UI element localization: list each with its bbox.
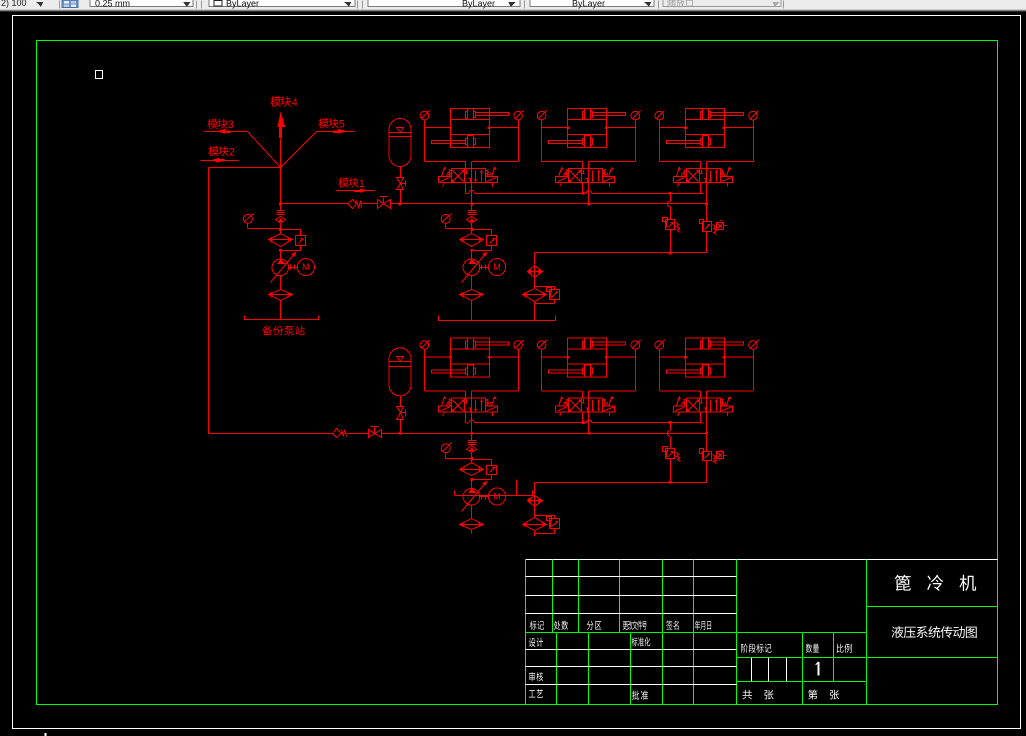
svg-text:ByLayer: ByLayer xyxy=(462,0,495,8)
wire return bus xyxy=(535,482,707,484)
wire xyxy=(706,461,708,483)
wire T chain with hops xyxy=(469,413,701,425)
cylinder group 2 xyxy=(537,109,640,194)
row texts xyxy=(529,637,650,700)
return branch 1 xyxy=(523,253,560,304)
green row below header xyxy=(526,632,867,634)
svg-text:M: M xyxy=(493,492,501,502)
tank xyxy=(245,316,319,320)
motor M xyxy=(488,488,505,505)
pump (variable displacement) xyxy=(462,480,487,512)
pressure gauge xyxy=(441,214,451,224)
lower table white rows xyxy=(526,650,737,685)
coupling xyxy=(289,265,298,270)
wire pump column upper xyxy=(471,434,473,464)
wire T chain with hops xyxy=(469,183,701,195)
right boxes green xyxy=(867,560,998,705)
wire junction down to pump bus xyxy=(279,168,282,206)
sub table (green) xyxy=(737,633,867,705)
wire left riser (to lower bus) xyxy=(208,168,210,434)
wire system relief column xyxy=(706,434,708,452)
coupling xyxy=(480,495,489,500)
sub table texts xyxy=(741,644,852,700)
wire return stub lower xyxy=(534,531,536,537)
label 备份泵站 xyxy=(262,326,304,336)
wire return to tank xyxy=(534,302,536,321)
wire lower pressure bus xyxy=(209,432,709,435)
check valve CV2 on lower bus xyxy=(333,429,347,438)
accumulator AC2 xyxy=(389,348,412,396)
svg-text:2) 100: 2) 100 xyxy=(1,0,27,8)
svg-text:5: 5 xyxy=(339,119,345,131)
relief valve bypass xyxy=(470,228,496,251)
wire suction stub lower xyxy=(471,530,473,534)
label 模块1 with leader xyxy=(336,178,375,193)
wire gauge to column xyxy=(446,224,474,231)
cylinder group 6 xyxy=(655,338,758,423)
svg-text:3: 3 xyxy=(228,119,234,131)
tank xyxy=(439,316,556,321)
wire return bus xyxy=(535,252,707,254)
wire xyxy=(534,278,536,289)
title block verticals upper table (green) xyxy=(526,560,737,633)
wire P drops valves xyxy=(472,183,707,204)
check valve (pump outlet) xyxy=(467,211,477,224)
shutoff valve under AC2 xyxy=(397,396,406,434)
return filter xyxy=(523,518,547,531)
pump (variable displacement) xyxy=(271,251,296,283)
motor M xyxy=(297,259,314,276)
svg-text:1: 1 xyxy=(359,178,365,190)
drain symbol xyxy=(717,451,727,461)
svg-text:ByLayer: ByLayer xyxy=(226,0,259,9)
wire top pressure bus xyxy=(281,203,709,206)
relief valve (return side) xyxy=(663,447,681,462)
pressure gauge xyxy=(441,443,451,453)
svg-text:ByLayer: ByLayer xyxy=(572,0,605,8)
wire junction to left riser xyxy=(209,167,281,169)
label 模块3 with leader xyxy=(204,119,281,168)
sub table small white cells xyxy=(752,658,787,682)
return filter xyxy=(523,289,547,302)
drawing name 液压系统传动图 xyxy=(892,626,977,638)
wire xyxy=(534,507,536,518)
return filter relief bypass xyxy=(535,287,560,304)
cylinder group 3 xyxy=(655,109,758,194)
return branch 2 xyxy=(523,483,560,534)
wire relief drop with bus hop xyxy=(667,194,670,220)
pressure gauge xyxy=(243,214,253,224)
wire xyxy=(669,459,672,484)
wire system relief column xyxy=(706,204,708,222)
pilot operated check valve xyxy=(528,266,543,278)
wire xyxy=(669,230,672,255)
relief valve (return side) xyxy=(663,218,681,233)
wire relief drop with bus hop xyxy=(667,423,670,449)
backup pump station xyxy=(243,204,318,336)
motor M xyxy=(488,259,505,276)
svg-text:M: M xyxy=(302,262,310,272)
relief valve bypass xyxy=(470,458,496,481)
project name 篦冷机 xyxy=(895,575,976,591)
cylinder group 1 xyxy=(420,109,523,194)
relief valve bypass xyxy=(279,228,305,251)
wire gauge to column xyxy=(446,453,474,460)
suction filter xyxy=(460,276,484,301)
check valve (pump outlet) xyxy=(467,441,477,453)
coupling xyxy=(480,265,489,270)
wire xyxy=(706,232,708,253)
cylinder group 4 xyxy=(420,338,523,423)
status tick bottom xyxy=(45,733,47,736)
return filter relief bypass xyxy=(535,516,560,534)
accumulator AC1 xyxy=(389,119,412,167)
wire to tank xyxy=(471,301,473,321)
pilot operated check valve xyxy=(528,496,543,507)
wire gauge to column xyxy=(248,224,283,231)
wire pump column upper xyxy=(471,204,473,235)
upper table white rows xyxy=(526,577,737,614)
main pump station 2 xyxy=(441,434,505,530)
wire return drop xyxy=(534,253,536,265)
relief valve (system) xyxy=(700,449,717,464)
lower table verticals (green) xyxy=(526,633,737,705)
toolbar strip xyxy=(0,0,1026,12)
suction filter xyxy=(269,276,293,301)
svg-text:2: 2 xyxy=(229,146,235,158)
pickbox cursor xyxy=(96,71,103,79)
cylinder group 5 xyxy=(537,338,640,423)
ball valve BV2 xyxy=(369,427,382,438)
wire P drops valves xyxy=(472,413,707,434)
label 模块4 with up arrow xyxy=(270,96,297,167)
wire to tank xyxy=(280,301,282,320)
svg-text:0.25 mm: 0.25 mm xyxy=(95,0,130,8)
suction filter xyxy=(460,506,484,530)
header texts xyxy=(530,621,711,630)
wire stray shaft line xyxy=(455,480,535,496)
pressure filter xyxy=(460,234,484,247)
ball valve BV1 xyxy=(378,197,391,209)
label 模块5 with leader xyxy=(281,118,355,167)
check valve CV1 on bus xyxy=(348,200,362,209)
svg-text:4: 4 xyxy=(292,97,298,109)
relief valve (system) xyxy=(700,220,717,235)
svg-text:M: M xyxy=(493,262,501,272)
main pump station 1 xyxy=(439,204,556,321)
check valve (pump outlet) xyxy=(276,211,286,224)
wire return drop xyxy=(534,483,536,495)
node distribution junction xyxy=(279,166,282,169)
pressure filter xyxy=(269,234,293,247)
shutoff valve under AC1 xyxy=(397,167,406,204)
title block top border (white) xyxy=(526,559,998,561)
pump (variable displacement) xyxy=(462,251,487,283)
pressure filter xyxy=(460,463,484,476)
label 模块2 with leader xyxy=(201,146,239,162)
wire pump column upper xyxy=(280,204,282,235)
drain symbol xyxy=(717,221,727,231)
